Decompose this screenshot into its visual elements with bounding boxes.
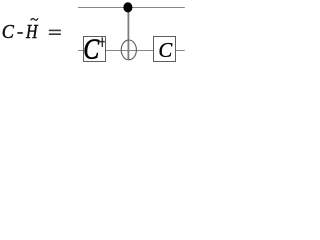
gate box C-dagger [84,37,106,62]
tilde over H [31,18,38,20]
wire control vertical [127,8,129,60]
wire bottom [78,50,185,52]
dagger superscript [102,37,103,47]
svg-text:C: C [158,39,173,62]
background [0,0,187,65]
control dot [123,2,132,12]
svg-text:H: H [25,20,38,42]
svg-text:C: C [2,21,14,43]
svg-text:C: C [83,32,99,65]
wire top [78,7,185,9]
label hyphen [17,32,22,34]
gate box C [154,37,176,62]
target XOR circle [121,40,136,60]
equals sign [49,30,61,32]
